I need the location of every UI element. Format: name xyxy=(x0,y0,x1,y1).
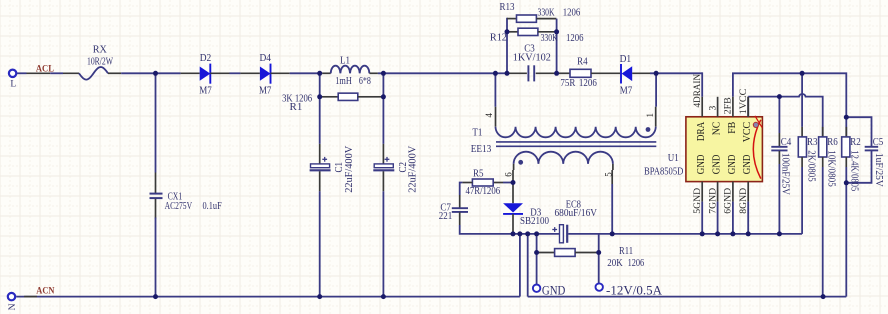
svg-text:GND: GND xyxy=(542,283,566,298)
svg-text:C4: C4 xyxy=(781,137,792,148)
svg-text:680uF/16V: 680uF/16V xyxy=(555,208,598,219)
svg-text:-12V/0.5A: -12V/0.5A xyxy=(606,283,663,298)
svg-text:100nF/25V: 100nF/25V xyxy=(780,153,791,196)
svg-text:4: 4 xyxy=(484,113,494,118)
svg-text:1VCC: 1VCC xyxy=(739,89,749,115)
svg-text:DRA: DRA xyxy=(696,121,707,141)
svg-text:U1: U1 xyxy=(668,153,679,164)
svg-text:SB2100: SB2100 xyxy=(520,216,549,227)
svg-text:47R/1206: 47R/1206 xyxy=(466,186,501,197)
svg-text:1206: 1206 xyxy=(628,258,645,269)
svg-text:VCC: VCC xyxy=(742,122,753,143)
svg-text:RX: RX xyxy=(93,45,108,56)
svg-text:M7: M7 xyxy=(199,85,212,96)
svg-text:8GND: 8GND xyxy=(739,188,749,214)
svg-text:6*8: 6*8 xyxy=(359,76,371,87)
svg-text:GND: GND xyxy=(727,154,738,174)
svg-text:75R: 75R xyxy=(560,78,575,89)
svg-text:1206: 1206 xyxy=(563,8,581,19)
svg-text:ACL: ACL xyxy=(36,63,54,73)
svg-text:6GND: 6GND xyxy=(724,188,734,214)
svg-text:L: L xyxy=(10,80,16,90)
svg-text:ACN: ACN xyxy=(36,286,55,296)
svg-text:1KV/102: 1KV/102 xyxy=(513,52,551,63)
svg-text:BPA8505D: BPA8505D xyxy=(644,167,683,178)
svg-text:AC275V: AC275V xyxy=(165,201,193,212)
svg-text:NC: NC xyxy=(712,122,723,136)
svg-text:R2: R2 xyxy=(850,137,861,148)
svg-text:R3: R3 xyxy=(807,137,818,148)
svg-text:C5: C5 xyxy=(873,137,884,148)
svg-text:R1: R1 xyxy=(290,102,303,113)
svg-text:12.4K/0805: 12.4K/0805 xyxy=(849,150,860,191)
svg-text:1206: 1206 xyxy=(579,78,597,89)
svg-text:D1: D1 xyxy=(620,54,632,65)
svg-text:M7: M7 xyxy=(259,85,272,96)
svg-text:D2: D2 xyxy=(200,53,212,64)
svg-text:T1: T1 xyxy=(472,127,482,138)
svg-text:0.1uF: 0.1uF xyxy=(203,201,222,212)
svg-text:6: 6 xyxy=(503,172,513,177)
svg-text:4DRAIN: 4DRAIN xyxy=(693,74,703,108)
svg-text:1206: 1206 xyxy=(566,33,584,44)
svg-text:22uF/400V: 22uF/400V xyxy=(408,145,419,193)
svg-text:GND: GND xyxy=(742,154,753,174)
svg-text:D4: D4 xyxy=(259,53,271,64)
svg-text:R4: R4 xyxy=(577,56,588,67)
svg-text:22uF/400V: 22uF/400V xyxy=(344,145,355,193)
svg-text:1mH: 1mH xyxy=(335,76,352,87)
svg-text:R5: R5 xyxy=(473,169,484,180)
svg-text:330K: 330K xyxy=(538,8,555,19)
svg-text:5: 5 xyxy=(604,172,614,177)
svg-text:N: N xyxy=(8,303,18,310)
svg-text:EE13: EE13 xyxy=(471,144,492,155)
svg-text:R6: R6 xyxy=(827,137,838,148)
svg-text:3: 3 xyxy=(708,106,718,111)
svg-text:R12: R12 xyxy=(490,32,507,43)
svg-text:5GND: 5GND xyxy=(693,188,703,214)
svg-text:221: 221 xyxy=(439,211,453,222)
svg-text:GND: GND xyxy=(712,154,723,174)
svg-text:M7: M7 xyxy=(620,86,633,97)
svg-text:GND: GND xyxy=(696,154,707,174)
svg-text:20K: 20K xyxy=(607,258,623,269)
svg-text:FB: FB xyxy=(727,122,738,134)
svg-text:330K: 330K xyxy=(541,33,558,44)
svg-text:10R/2W: 10R/2W xyxy=(87,57,113,68)
svg-text:L1: L1 xyxy=(340,55,350,66)
svg-text:R13: R13 xyxy=(500,2,515,13)
svg-text:1uF/25V: 1uF/25V xyxy=(873,153,884,187)
svg-text:2K/0805: 2K/0805 xyxy=(806,150,817,181)
svg-text:2FB: 2FB xyxy=(724,97,734,114)
svg-text:10K/0805: 10K/0805 xyxy=(826,150,837,187)
svg-text:1: 1 xyxy=(645,113,655,118)
svg-text:7GND: 7GND xyxy=(708,188,718,214)
svg-text:R11: R11 xyxy=(619,246,633,257)
